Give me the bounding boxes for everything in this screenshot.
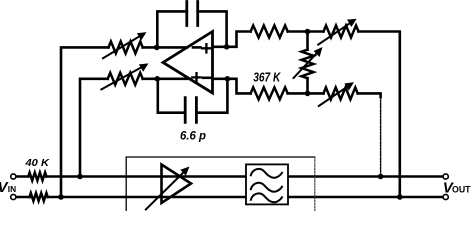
capacitor C1 top feedback: left branch	[157, 11, 187, 47]
node: top output / C1 right	[224, 44, 230, 50]
op-amp U1 top input minus sign	[193, 46, 201, 49]
terminal VIN upper	[11, 174, 16, 179]
wire: bottom row between R5 and node	[288, 92, 324, 95]
resistor R7 bottom lead	[306, 78, 309, 93]
filter block F1 wave 2	[251, 183, 282, 192]
node: bottom input / C2 left	[155, 76, 161, 82]
resistor R1 variable top-left zigzag	[109, 41, 143, 53]
op-amp U1 top plus sign	[202, 44, 210, 52]
op-amp U1 bottom plus sign	[192, 73, 200, 81]
wire: bottom-left input line and left vertical to upper rail	[80, 79, 108, 177]
capacitor C1 right branch	[198, 11, 227, 46]
svg-text:6.6 p: 6.6 p	[180, 131, 206, 143]
filter block F1 wave 1	[251, 169, 282, 178]
svg-text:367 K: 367 K	[253, 71, 281, 85]
op-amp U1 bottom minus sign	[203, 77, 211, 80]
wire: upper rail	[16, 175, 443, 178]
filter block F1 wave 3	[251, 193, 282, 202]
resistor R6 variable bottom-right zigzag	[324, 87, 358, 99]
capacitor C2 plates	[185, 98, 196, 123]
resistor R5 fixed 367K bottom zigzag	[251, 87, 288, 99]
node: dotted vertical on upper rail	[378, 174, 384, 180]
resistor R4 arrow	[318, 22, 352, 45]
wire: bottom input line segment to op-amp slant edge	[143, 78, 190, 81]
resistor R7 variable vertical 367K: top lead	[306, 32, 309, 50]
op-amp U1 triangle (fully differential, pointing left)	[163, 32, 213, 94]
resistor R8 40K upper zigzag	[28, 173, 46, 181]
terminal VIN lower	[11, 194, 16, 199]
wire: top row to right vertical down to lower rail	[359, 32, 400, 198]
wire: top row between R3 and node	[288, 30, 324, 33]
resistor R9 40K lower zigzag	[30, 193, 48, 201]
node: bottom output / C2 right	[225, 76, 231, 82]
resistor R7 arrow	[294, 51, 320, 78]
node: left vertical on upper rail	[77, 174, 83, 180]
capacitor C1 plates	[187, 2, 198, 26]
capacitor C2 right branch	[196, 79, 227, 113]
wire: op-amp bottom output to bottom row	[213, 79, 251, 94]
node: top row / R7 top	[305, 29, 311, 35]
box: tuning block dotted right edge	[314, 157, 316, 211]
junction node dots	[58, 29, 402, 200]
node: bottom row / R7 bottom	[305, 91, 311, 97]
amplifier U2 arrow	[146, 170, 186, 209]
amplifier U2 VGA triangle	[162, 165, 192, 204]
resistor R2 arrow	[101, 66, 144, 90]
wire: top-left input line and left vertical to lower rail	[61, 47, 109, 197]
wire: dotted vertical to upper rail	[380, 97, 382, 177]
svg-text:40 K: 40 K	[24, 157, 50, 169]
capacitor C2 bottom 6.6p: left branch	[158, 79, 185, 113]
wire: top input line segment to op-amp slant edge	[143, 46, 187, 49]
node: top input / C1 left	[154, 45, 160, 51]
resistor R1 arrow	[103, 35, 143, 59]
resistor R2 variable bottom-left zigzag	[108, 73, 143, 85]
wire: op-amp top output to top row	[213, 32, 251, 47]
svg-text:IN: IN	[8, 184, 16, 194]
svg-text:OUT: OUT	[452, 185, 471, 195]
resistor R3 fixed 367K top zigzag	[251, 26, 288, 38]
terminal VOUT upper	[443, 174, 448, 179]
node: right vertical on lower rail	[397, 194, 403, 200]
filter block F1 box	[246, 164, 288, 204]
wire: bottom row corner to dotted vertical	[358, 93, 381, 97]
node: left vertical on lower rail	[58, 194, 64, 200]
box: tuning block outline (left, top edges)	[126, 157, 315, 211]
resistor R4 variable top-right zigzag	[324, 26, 359, 38]
resistor R6 arrow	[319, 85, 350, 106]
resistor R7 zigzag	[302, 50, 314, 78]
terminal VOUT lower	[443, 194, 448, 199]
wire: lower rail	[16, 196, 443, 199]
